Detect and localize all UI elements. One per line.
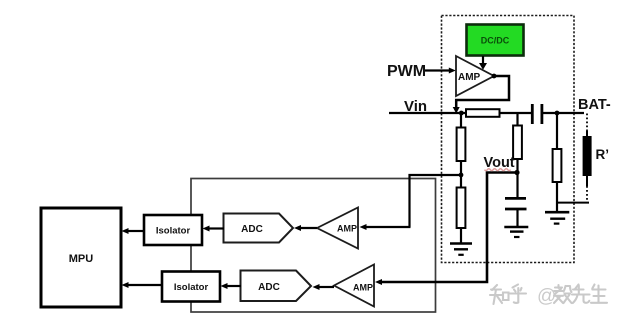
svg-text:AMP: AMP — [337, 224, 357, 234]
PWM input label — [387, 63, 426, 80]
op-amp AMP (top measurement amp) — [317, 208, 358, 249]
wire from divider tap node to top AMP input — [360, 175, 462, 230]
BAT- label — [578, 97, 611, 113]
DC/DC converter block — [467, 25, 524, 56]
watermark at-sign — [537, 286, 556, 307]
junction dot divider tap — [459, 173, 464, 178]
red squiggly underline under Vout — [485, 169, 511, 171]
pwm-amp output feedback wire to Vin node — [453, 76, 509, 114]
capacitor (series on rail) — [532, 104, 542, 124]
wire cap to ground segment — [516, 210, 518, 227]
wire to R' return — [557, 202, 589, 204]
wire divider middle segment — [460, 161, 462, 188]
resistor (series, horizontal on Vin rail) — [466, 109, 500, 117]
wire bottom isolator to bottom ADC with arrow — [221, 283, 242, 289]
svg-text:MPU: MPU — [69, 253, 94, 265]
enclosure box (signal-chain board outline) — [191, 179, 436, 313]
wire MPU to top isolator with arrow — [122, 228, 145, 234]
wire Vin rail — [389, 112, 584, 114]
wire top ADC to top AMP apex with arrow — [294, 225, 317, 231]
wire divider bottom segment — [460, 228, 462, 243]
junction dot right of capacitor — [555, 111, 560, 116]
Vin label — [404, 98, 427, 115]
ground (below Vout capacitor) — [504, 227, 528, 237]
capacitor (Vout filter to ground) — [505, 198, 527, 209]
svg-text:AMP: AMP — [353, 283, 373, 293]
resistor (divider lower) — [457, 188, 466, 229]
junction dot at pwm-amp apex — [492, 74, 497, 79]
svg-text:Isolator: Isolator — [174, 282, 209, 293]
resistor (middle branch) — [513, 126, 522, 160]
op-amp AMP (bottom measurement amp) — [334, 265, 374, 307]
svg-text:ADC: ADC — [258, 282, 280, 293]
wire right branch top segment — [556, 113, 558, 150]
resistor R' (shunt, filled) — [583, 136, 592, 176]
svg-text:@: @ — [537, 286, 556, 307]
Vout label — [484, 155, 515, 171]
watermark — [490, 285, 607, 305]
isolator (bottom) — [162, 272, 220, 302]
svg-text:DC/DC: DC/DC — [481, 36, 510, 46]
junction dot Vin node — [459, 111, 464, 116]
svg-text:ADC: ADC — [241, 224, 263, 235]
R' label — [596, 147, 610, 162]
wire bottom ADC to bottom AMP apex with arrow — [313, 284, 335, 290]
MPU U1 — [41, 208, 121, 307]
junction dot Vout node — [514, 170, 519, 175]
wire MPU to bottom isolator with arrow — [122, 282, 163, 288]
ground (below divider) — [450, 244, 472, 255]
svg-text:R’: R’ — [596, 147, 610, 162]
wire right branch bottom segment — [556, 182, 558, 212]
resistor (right branch) — [553, 149, 562, 182]
resistor (divider upper) — [457, 128, 466, 162]
wire divider top segment — [460, 113, 462, 128]
wire Vout node to bottom AMP input — [375, 173, 517, 286]
svg-text:AMP: AMP — [458, 72, 481, 83]
wire PWM to pwm-amp with arrow — [425, 68, 456, 74]
svg-text:BAT-: BAT- — [578, 97, 611, 113]
dotted wire R' to return — [586, 176, 588, 202]
wire middle branch top segment — [516, 113, 518, 126]
dashed enclosure (battery sensing network) — [442, 16, 575, 263]
ground (below right branch) — [545, 212, 569, 223]
svg-text:Isolator: Isolator — [156, 226, 191, 237]
ADC (top) — [224, 214, 294, 243]
isolator (top) — [144, 215, 202, 245]
dotted wire BAT- to R' — [586, 114, 588, 138]
wire DC/DC to pwm-amp with arrow — [479, 56, 487, 70]
wire middle branch to Vout node — [516, 159, 518, 197]
op-amp AMP (PWM driver) — [456, 56, 494, 96]
ADC (bottom) — [241, 271, 312, 302]
svg-text:PWM: PWM — [387, 63, 426, 80]
wire top isolator to top ADC with arrow — [203, 226, 225, 232]
